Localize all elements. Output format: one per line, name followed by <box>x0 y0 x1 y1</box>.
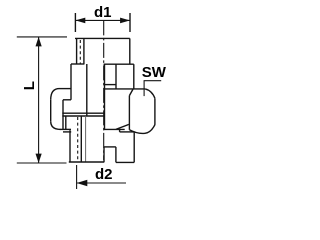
nut bottom face right <box>104 124 129 129</box>
dimension L extension line top <box>17 36 67 38</box>
lower body top face left <box>63 131 71 133</box>
body top face left <box>71 63 84 65</box>
bottom edge left <box>69 161 104 163</box>
nut bottom small step <box>65 116 67 129</box>
nut bottom face left <box>60 128 71 130</box>
dimension d1 extension line right <box>129 13 131 32</box>
top pipe thread dashed <box>79 40 81 64</box>
bottom notch right vertical <box>115 147 117 163</box>
dimension d2 line <box>77 182 126 184</box>
dimension d1 arrow right <box>120 18 130 24</box>
svg-text:L: L <box>21 81 38 90</box>
body left wall <box>70 64 72 100</box>
dimension d1 line <box>75 19 130 21</box>
nut step horizontal <box>63 99 71 101</box>
nut flat edge vertical <box>62 100 64 129</box>
top pipe left wall <box>76 38 78 64</box>
lower body right edge <box>133 132 135 163</box>
joint line upper <box>62 112 104 114</box>
nut top-right chamfer arc <box>145 89 155 98</box>
nut top face left <box>60 88 72 90</box>
lower body step right <box>119 130 121 132</box>
nut bottom-left corner arc <box>51 121 61 129</box>
dimension d1 extension line left <box>74 13 76 32</box>
bottom notch top <box>104 146 116 148</box>
dimension d2 arrow <box>77 180 88 186</box>
nut corner edge <box>128 96 130 130</box>
lower body top face right <box>120 131 135 133</box>
dimension L extension line bottom <box>17 162 67 164</box>
nut left edge <box>50 100 52 121</box>
dimension L arrow down <box>36 154 42 163</box>
bottom edge right <box>116 161 134 163</box>
svg-text:SW: SW <box>142 64 167 81</box>
nut right edge <box>154 98 156 125</box>
top pipe right wall <box>129 38 131 64</box>
top pipe inner wall <box>83 38 85 64</box>
bottom notch left vertical <box>103 147 105 162</box>
bottom socket inner pipe wall <box>85 116 87 162</box>
nut bottom-right sag arc <box>129 125 155 134</box>
centerline <box>103 20 105 160</box>
bottom socket thread dashed <box>77 117 79 161</box>
SW leader tick <box>143 81 145 96</box>
bottom socket bore wall <box>80 116 82 162</box>
body right wall <box>133 64 135 89</box>
top pipe top edge <box>75 37 130 39</box>
nut top face right <box>104 89 146 96</box>
body bore wall <box>86 64 88 116</box>
body inner line near centerline <box>104 64 106 129</box>
body inner step vertical right <box>115 64 117 89</box>
SW leader underline <box>144 80 162 82</box>
nut top-left corner arc <box>51 89 60 100</box>
lower body left edge <box>69 130 71 162</box>
dimension d2 extension line <box>76 165 78 189</box>
joint line lower <box>62 115 104 117</box>
body inner step horizontal right <box>105 84 117 86</box>
dimension L line <box>38 37 40 163</box>
dimension L arrow up <box>36 37 42 47</box>
body top face right <box>104 63 134 65</box>
svg-text:d1: d1 <box>94 4 112 21</box>
dimension d1 arrow left <box>75 18 85 24</box>
svg-text:d2: d2 <box>95 166 113 183</box>
